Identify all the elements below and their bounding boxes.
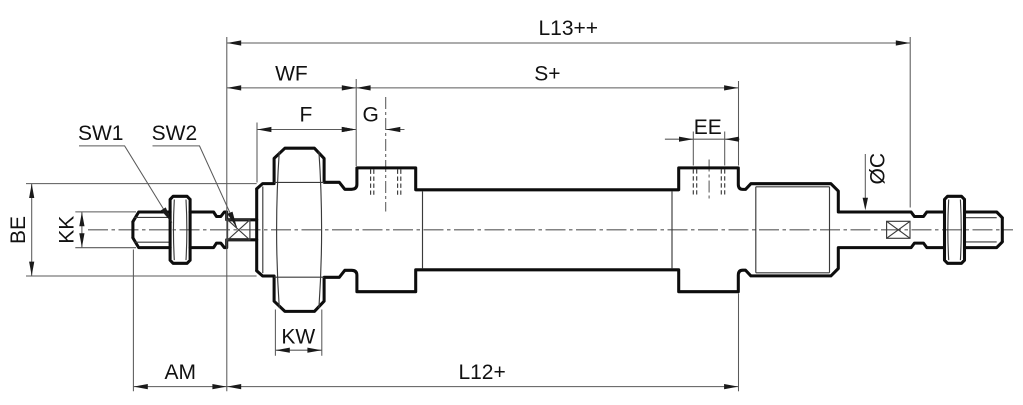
hex KW interior arcs bbox=[274, 152, 324, 309]
dimension BE bbox=[7, 184, 35, 276]
svg-text:G: G bbox=[363, 104, 379, 127]
svg-text:SW1: SW1 bbox=[78, 122, 124, 145]
dimension L12+ bbox=[227, 361, 739, 389]
cylinder body outline top bbox=[257, 148, 839, 211]
svg-text:L12+: L12+ bbox=[458, 361, 505, 384]
svg-text:EE: EE bbox=[694, 116, 722, 139]
svg-text:F: F bbox=[299, 104, 312, 127]
dimension KK bbox=[56, 212, 85, 248]
svg-text:SW2: SW2 bbox=[152, 122, 198, 145]
right thread minor lines bbox=[965, 218, 997, 242]
extension line body front bbox=[355, 79, 357, 166]
right rod end face bbox=[1001, 218, 1004, 242]
svg-text:WF: WF bbox=[275, 63, 308, 86]
dimension EE bbox=[665, 116, 740, 142]
dimension L13++ bbox=[227, 17, 910, 46]
svg-text:KW: KW bbox=[281, 325, 315, 348]
cylinder tube end lines bbox=[423, 191, 673, 268]
right rod profile bottom bbox=[838, 242, 1002, 248]
dimension KW bbox=[275, 325, 321, 352]
svg-text:S+: S+ bbox=[534, 63, 560, 86]
left port thread dashed lines bbox=[371, 170, 401, 195]
extension line rod right bbox=[909, 37, 911, 208]
svg-text:AM: AM bbox=[164, 361, 196, 384]
right wrench flats box bbox=[887, 221, 910, 238]
dimension AM bbox=[133, 361, 226, 389]
dimension G bbox=[341, 104, 405, 132]
left rod end face bbox=[131, 222, 134, 238]
label SW1 with leader bbox=[78, 122, 172, 224]
extension line body rear lower bbox=[738, 293, 740, 391]
lock nut SW1 bbox=[170, 196, 190, 263]
main horizontal centerline bbox=[88, 229, 1013, 231]
dimension F bbox=[257, 104, 356, 132]
svg-text:KK: KK bbox=[56, 216, 79, 244]
svg-text:L13++: L13++ bbox=[539, 17, 599, 40]
left wrench flats box SW2 bbox=[228, 220, 250, 240]
dimension WF bbox=[227, 63, 356, 91]
rear boss chamfer lines bbox=[756, 187, 830, 273]
extension lines BE boss bbox=[26, 184, 257, 276]
left rod profile top bbox=[133, 212, 257, 222]
extension line head face bbox=[256, 123, 258, 183]
extension lines KK thread bbox=[75, 212, 136, 248]
left port centerline bbox=[385, 97, 387, 212]
extension lines KW hex bbox=[275, 310, 321, 356]
front boss chamfer line bbox=[262, 187, 264, 274]
extension line body rear upper bbox=[738, 81, 740, 166]
front head face bbox=[255, 189, 258, 271]
svg-text:BE: BE bbox=[7, 216, 30, 244]
extension lines EE port bbox=[693, 132, 724, 166]
right port thread dashed lines bbox=[693, 169, 724, 194]
left thread minor lines bbox=[135, 217, 171, 242]
left rod profile bottom bbox=[133, 238, 257, 248]
cylinder body outline bottom bbox=[257, 249, 839, 312]
extension line rod shoulder bbox=[226, 37, 228, 391]
svg-text:ØC: ØC bbox=[866, 153, 889, 185]
right lock nut bbox=[945, 196, 965, 263]
right rod profile top bbox=[838, 212, 1002, 218]
dimension S+ bbox=[356, 63, 738, 91]
extension line rod end bbox=[132, 250, 134, 392]
leader and label diameter C bbox=[863, 153, 890, 210]
label SW2 with leader bbox=[152, 122, 237, 228]
right port centerline bbox=[708, 160, 710, 199]
